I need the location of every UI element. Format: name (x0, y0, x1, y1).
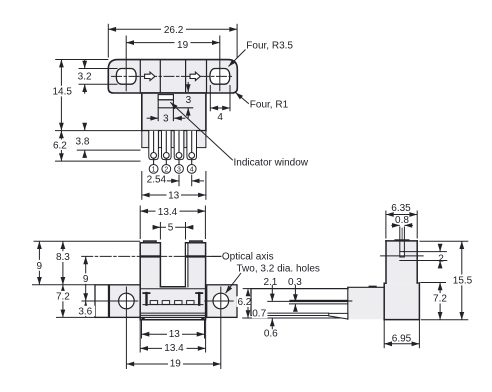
svg-text:13: 13 (169, 329, 181, 340)
connector cavity top line (140, 288, 205, 290)
dim 13.4 bottom (140, 347, 205, 349)
pin slots (149, 131, 197, 160)
dim 19 (126, 42, 220, 44)
aperture ext lines (403, 251, 447, 253)
top view: lower body (13 wide) (142, 93, 206, 131)
svg-text:9: 9 (37, 261, 43, 272)
dim 13 top (142, 194, 206, 196)
text background (237, 296, 251, 307)
bottom stack lines (142, 312, 205, 314)
step to column right (417, 282, 419, 284)
aperture window (400, 252, 405, 257)
text background (80, 273, 91, 283)
optical band right tower (186, 255, 206, 257)
svg-text:19: 19 (177, 40, 189, 51)
hole center vertical crosshair right / 19 ext (219, 36, 221, 91)
pin tip circles (151, 153, 195, 159)
dim 3 horizontal arrows (147, 117, 159, 119)
slot bottom thin line (289, 303, 347, 305)
dim 5 (160, 226, 185, 228)
dim 26.2 ext lines (107, 24, 109, 58)
strip tick extension (348, 300, 352, 302)
optical axis tick (381, 255, 424, 257)
leader two 3.2 dia holes (226, 273, 242, 293)
dim 3.2 arrows (84, 59, 86, 69)
svg-text:5: 5 (168, 223, 174, 234)
svg-text:2: 2 (164, 167, 168, 174)
slot centerline (401, 228, 403, 240)
svg-text:Indicator window: Indicator window (234, 158, 309, 169)
dim 9 outer (38, 241, 40, 285)
front view: U-shaped body (140, 243, 205, 320)
svg-text:3: 3 (186, 95, 192, 106)
dim 2.54 ext lines (178, 175, 180, 187)
text background (167, 329, 182, 339)
terminal windows (150, 301, 194, 305)
dim 13 bottom ext (141, 321, 143, 339)
dim 4 (210, 107, 230, 109)
text background (50, 140, 71, 151)
dim 14.5 (60, 60, 62, 131)
text background (434, 293, 448, 303)
svg-text:Four, R3.5: Four, R3.5 (246, 40, 293, 51)
svg-text:14.5: 14.5 (52, 87, 72, 98)
svg-text:6.35: 6.35 (391, 203, 411, 214)
svg-text:0.6: 0.6 (264, 328, 278, 339)
svg-text:0.3: 0.3 (288, 277, 302, 288)
dim 0.6 (271, 318, 273, 329)
right slot hole (210, 69, 230, 85)
latch T right (196, 292, 202, 294)
svg-text:0.7: 0.7 (252, 308, 266, 319)
svg-text:Optical axis: Optical axis (222, 252, 274, 263)
dim 13 bottom (142, 333, 205, 335)
ear top ext line (32, 284, 95, 286)
text background (161, 24, 186, 34)
slot top thin line left (268, 300, 290, 302)
dim 6.2 side (247, 289, 249, 318)
svg-text:3.8: 3.8 (76, 137, 90, 148)
svg-text:7.2: 7.2 (433, 294, 447, 305)
svg-text:Two, 3.2 dia. holes: Two, 3.2 dia. holes (237, 264, 320, 275)
text background (166, 222, 175, 232)
dim 3.8 arrows (84, 123, 86, 130)
optical direction arrow left (145, 72, 155, 81)
dim 6.95 ext (383, 320, 385, 349)
dim 15.5 (461, 241, 463, 320)
optical axis centerline (82, 255, 221, 257)
svg-text:3: 3 (163, 113, 169, 124)
svg-text:15.5: 15.5 (453, 275, 473, 286)
optical band left tower (140, 255, 160, 257)
column bottom (384, 319, 419, 321)
side view outline: tower (243, 240, 420, 319)
front view: left ear gray segment (109, 285, 140, 318)
svg-text:13.4: 13.4 (158, 207, 178, 218)
dim 26.2 (108, 28, 237, 30)
svg-text:4: 4 (190, 167, 194, 174)
optical direction arrow right (190, 72, 200, 81)
dim 13 top ext lines (141, 171, 143, 200)
top view: sensor bar with mounting ears (108, 60, 237, 93)
latch T left (143, 292, 149, 294)
leader indicator window (170, 102, 233, 160)
svg-text:7.2: 7.2 (56, 292, 70, 303)
text background (52, 86, 74, 97)
svg-text:6.2: 6.2 (237, 297, 251, 308)
svg-text:13: 13 (168, 190, 180, 201)
front view: left ear white segment (95, 285, 109, 318)
terminal number circles 1-4 (149, 165, 196, 174)
svg-text:0.8: 0.8 (395, 215, 409, 226)
tower cap left (144, 241, 157, 243)
text background (167, 190, 182, 200)
svg-text:3.2: 3.2 (78, 72, 92, 83)
svg-text:8.3: 8.3 (56, 252, 70, 263)
dim 7.2 side (439, 283, 441, 320)
dim 6.95 (384, 343, 419, 345)
dim 8.3 (62, 241, 64, 285)
svg-text:9: 9 (83, 274, 89, 285)
leader Four R3.5 (229, 50, 246, 67)
mounting hole right (213, 293, 229, 309)
dim 2.54 arrows (167, 180, 179, 182)
slot bottom line (160, 286, 185, 288)
svg-text:3: 3 (177, 167, 181, 174)
dim 19 bottom (126, 363, 220, 365)
svg-text:1: 1 (152, 167, 156, 174)
dim 6.35 ext (385, 211, 387, 239)
svg-text:3.6: 3.6 (78, 306, 92, 317)
step left of tower (384, 282, 386, 284)
cap on tower top (395, 239, 408, 241)
leader Four R1 (236, 93, 249, 104)
arm outline (251, 288, 348, 290)
svg-text:2: 2 (438, 254, 444, 265)
dim 3.6 (85, 301, 87, 317)
bar division lines (139, 60, 141, 93)
dim 13.4 top ext (139, 206, 141, 240)
text background (76, 306, 95, 316)
tower top ext line (34, 240, 141, 242)
pin walls (142, 131, 206, 148)
svg-text:19: 19 (170, 359, 182, 370)
dim 3.2 ext lines (79, 68, 118, 70)
text background (168, 358, 183, 368)
svg-text:2.1: 2.1 (263, 277, 277, 288)
front view: right ear (207, 285, 237, 318)
hole crosshairs (82, 300, 138, 302)
indicator window outline (157, 95, 159, 121)
ear bottom line across (95, 316, 237, 318)
ext line 7.2 top (420, 282, 446, 284)
svg-text:Four, R1: Four, R1 (250, 100, 289, 111)
text background (54, 251, 73, 262)
ext line body bottom y130.6 (55, 130, 141, 132)
mounting hole left (119, 293, 135, 309)
dim 2.1 (271, 285, 273, 289)
text background (175, 40, 191, 50)
dim 7.2 front (62, 285, 64, 318)
svg-text:13.4: 13.4 (164, 343, 184, 354)
left slot hole (116, 69, 136, 85)
svg-text:6.2: 6.2 (53, 140, 67, 151)
ext line y150 (77, 149, 141, 151)
dim 13.4 top (140, 210, 205, 212)
pcb slot thick strip (289, 300, 347, 302)
dim 3 vertical arrows (187, 82, 189, 92)
side view: gray fills (251, 289, 348, 316)
svg-text:6.95: 6.95 (392, 334, 412, 345)
aperture slot lines (399, 227, 401, 252)
ext 15.5 top (420, 240, 469, 242)
dim 0.3 (294, 285, 296, 302)
dim 4 ext lines (209, 85, 211, 111)
ext line y161 (55, 160, 141, 162)
ear bottom ext line (56, 316, 95, 318)
dim 6.2 top view (60, 131, 62, 162)
text background (252, 308, 268, 318)
dim 9 inner (85, 256, 87, 301)
text background (452, 275, 474, 286)
lens column gap right tower (186, 244, 188, 287)
dim 6.35 (386, 214, 417, 216)
ext 15.5 bottom (421, 319, 468, 321)
leader optical axis (208, 255, 221, 257)
text background (162, 343, 187, 353)
dim 2 arrows (439, 244, 441, 251)
pin leads (154, 132, 192, 165)
text background (54, 291, 73, 301)
connector floor line (143, 304, 203, 306)
svg-text:2.54: 2.54 (147, 175, 167, 186)
text background (156, 206, 180, 216)
hole center vertical crosshair left / 19 ext (125, 36, 127, 91)
svg-text:26.2: 26.2 (164, 25, 184, 36)
pin end blocks (142, 318, 145, 320)
dim 13.4 bottom ext (139, 321, 141, 353)
dim 5 ext (159, 222, 161, 240)
ext 6.2 top (243, 288, 251, 290)
horizontal centerline (112, 75, 235, 77)
pin wedge (329, 313, 348, 319)
dim 0.8 arrows (391, 224, 400, 226)
text background (34, 260, 45, 271)
ext line bar top (55, 59, 108, 61)
svg-text:4: 4 (217, 112, 223, 123)
tower cap right (190, 241, 203, 243)
